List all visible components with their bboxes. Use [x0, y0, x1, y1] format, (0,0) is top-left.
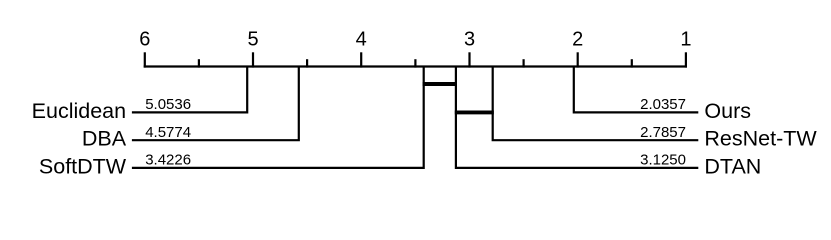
svg-text:4.5774: 4.5774	[145, 124, 191, 141]
svg-text:5: 5	[247, 29, 258, 51]
major tick 6	[144, 52, 146, 67]
minor tick 4.5	[306, 59, 308, 67]
svg-text:DTAN: DTAN	[704, 154, 761, 178]
minor tick 3.5	[414, 59, 416, 67]
SoftDTW line	[132, 67, 424, 168]
major tick 2	[577, 52, 579, 67]
svg-text:SoftDTW: SoftDTW	[39, 154, 127, 178]
svg-text:1: 1	[680, 29, 691, 51]
svg-text:4: 4	[356, 29, 367, 51]
svg-text:DBA: DBA	[82, 127, 127, 151]
minor tick 5.5	[198, 59, 200, 67]
svg-text:3.1250: 3.1250	[640, 152, 686, 169]
svg-text:3: 3	[464, 29, 475, 51]
clique bar DTAN-ResNet-TW	[455, 110, 494, 114]
svg-text:Ours: Ours	[704, 99, 751, 123]
Ours line	[574, 67, 699, 113]
major tick 3	[468, 52, 470, 67]
svg-text:2.7857: 2.7857	[640, 124, 686, 141]
ResNet-TW line	[493, 67, 699, 141]
minor tick 1.5	[631, 59, 633, 67]
svg-text:ResNet-TW: ResNet-TW	[704, 127, 817, 151]
svg-text:Euclidean: Euclidean	[32, 99, 126, 123]
major tick 1	[685, 52, 687, 67]
svg-text:2.0357: 2.0357	[640, 96, 686, 113]
Euclidean line	[132, 67, 247, 113]
svg-text:6: 6	[139, 29, 150, 51]
minor tick 2.5	[522, 59, 524, 67]
axis line	[144, 65, 687, 67]
svg-text:5.0536: 5.0536	[145, 96, 191, 113]
DTAN line	[456, 67, 698, 168]
clique bar SoftDTW-DTAN	[423, 82, 457, 86]
svg-text:2: 2	[572, 29, 583, 51]
major tick 5	[252, 52, 254, 67]
major tick 4	[360, 52, 362, 67]
DBA line	[132, 67, 299, 141]
svg-text:3.4226: 3.4226	[145, 152, 191, 169]
